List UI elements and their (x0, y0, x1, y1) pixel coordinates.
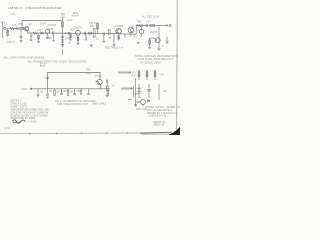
capacitor C12 (74, 89, 76, 93)
transistor TR3 (76, 30, 81, 35)
transistor TR7 (155, 38, 160, 43)
node b (55, 32, 58, 35)
svg-text:47K: 47K (37, 29, 42, 32)
battery B1 (138, 84, 140, 98)
transistor TR1 (24, 27, 28, 31)
ground G1 (6, 34, 9, 36)
svg-text:2N1305: 2N1305 (48, 24, 57, 27)
svg-text:(ALL CAPACITORS IN MF UNLESS): (ALL CAPACITORS IN MF UNLESS) (4, 57, 45, 60)
rail drop wire (21, 21, 23, 29)
wire drop TR5 base (124, 34, 126, 37)
ground G10 (157, 48, 160, 50)
svg-text:ALL TRANSISTORS TYPE 2N1305 UN: ALL TRANSISTORS TYPE 2N1305 UNLESS NOTED (28, 60, 87, 63)
wire TR5 emitter (130, 33, 132, 37)
resistor R10 (97, 23, 99, 34)
ground G3 (37, 41, 40, 43)
node c (96, 32, 99, 35)
resistor R2 (20, 27, 24, 29)
ground G12 (46, 96, 49, 98)
svg-text:4.7K: 4.7K (12, 24, 17, 27)
capacitor C20 on feedback (46, 76, 49, 78)
resistor R9 vertical (93, 29, 95, 38)
wire psu (158, 84, 160, 100)
svg-text:BUS: BUS (40, 65, 45, 68)
resistor R5 to ground (38, 33, 40, 41)
capacitor C7 (140, 24, 142, 27)
capacitor C9 (37, 89, 39, 94)
svg-text:2N170: 2N170 (75, 26, 83, 29)
node e (46, 87, 49, 90)
resistor R13 (150, 24, 155, 26)
ground G11 mid (89, 44, 91, 46)
wire stage connect (135, 26, 137, 35)
capacitor C11 (61, 89, 63, 93)
svg-text:NO SIGNAL INPUT: NO SIGNAL INPUT (140, 62, 162, 65)
svg-text:.01: .01 (40, 91, 44, 94)
capacitor C3 (51, 32, 53, 35)
diode D1 (41, 32, 43, 34)
svg-text:DWG 10452: DWG 10452 (92, 103, 106, 106)
svg-text:2N270: 2N270 (150, 31, 158, 34)
ground G2 (19, 39, 22, 41)
resistor R25 drop (70, 33, 72, 39)
ground G5 (61, 44, 64, 46)
bus wire (30, 88, 110, 90)
resistor R16 (67, 89, 69, 91)
svg-text:.02: .02 (63, 90, 67, 93)
svg-text:OUT: OUT (146, 21, 152, 24)
svg-text:PRI: PRI (90, 25, 94, 28)
capacitor C4b (61, 39, 64, 41)
resistor R3 to ground (7, 29, 9, 34)
signature (13, 120, 26, 123)
svg-text:BENTON: BENTON (154, 124, 164, 127)
svg-text:1K: 1K (56, 91, 59, 94)
svg-text:INPUT: INPUT (8, 41, 16, 44)
capacitor C2 to ground (20, 30, 22, 40)
resistor R12e below TR4 (118, 34, 120, 41)
svg-text:OUT: OUT (133, 36, 139, 39)
svg-text:A-204: A-204 (4, 127, 11, 130)
capacitor C5 (83, 32, 85, 35)
node d (113, 33, 116, 36)
resistor R18 (106, 86, 108, 91)
wire drop (113, 34, 115, 44)
svg-text:ALL RES 1/2 W: ALL RES 1/2 W (142, 15, 160, 18)
+supply rail (22, 20, 63, 22)
page right edge (176, 0, 179, 130)
transistor TR6 (139, 29, 143, 33)
capacitor C14 (148, 84, 150, 98)
resistor R22 (107, 89, 109, 91)
input jack J1 (4, 27, 6, 29)
resistor R15 (54, 89, 56, 91)
svg-text:AND TONE CONTROL CKT: AND TONE CONTROL CKT (57, 103, 88, 106)
resistor R14 (149, 38, 151, 46)
resistor R11 (108, 30, 110, 34)
output arrow (165, 25, 168, 27)
capacitor C13 (106, 80, 108, 84)
transistor TR4 (116, 29, 121, 34)
svg-text:+12V: +12V (67, 19, 73, 22)
capacitor C4 (61, 35, 64, 37)
resistor R1 (10, 27, 15, 29)
transistor TR8 (97, 79, 102, 84)
ground G9 (148, 46, 151, 48)
wire input row (6, 28, 24, 30)
wire TR9 (135, 79, 137, 105)
resistor R23 (137, 25, 141, 27)
capacitor C8 (145, 24, 147, 27)
capacitor C6 (102, 32, 104, 35)
svg-text:PIN: PIN (132, 74, 136, 77)
resistor R26 drop (103, 36, 105, 41)
svg-text:CHECKED 4-12: CHECKED 4-12 (149, 115, 167, 118)
output row wire (136, 24, 165, 26)
dropper chain R6 (62, 17, 64, 47)
svg-text:1N34: 1N34 (40, 23, 47, 26)
small mark (129, 99, 132, 101)
capacitor C18 drop (30, 33, 32, 39)
ground G8 (112, 44, 115, 46)
ground G4 (46, 36, 49, 38)
ground G7 (90, 44, 93, 46)
node a (14, 27, 17, 30)
feedback loop wire (48, 72, 101, 88)
svg-text:SP: SP (135, 93, 139, 96)
svg-text:LAB NO 17 - 6 TRANSISTOR AMPLI: LAB NO 17 - 6 TRANSISTOR AMPLIFIER (8, 6, 62, 10)
wire to output stages (98, 32, 136, 35)
resistor R24 drop (53, 35, 55, 40)
page bottom edge (0, 132, 145, 135)
svg-text:100K: 100K (18, 23, 24, 26)
svg-text:2K: 2K (30, 35, 33, 38)
node f (99, 87, 102, 90)
psu resistor R19 (138, 69, 140, 80)
bus left arrow (30, 88, 32, 90)
transistor TR5 (128, 28, 133, 33)
diode D2 (69, 32, 71, 34)
capacitor C10 (47, 89, 49, 94)
vertical wire (158, 28, 160, 48)
svg-text:1K: 1K (68, 42, 71, 45)
input terminal wire (2, 22, 4, 38)
svg-text:+9V: +9V (160, 74, 165, 77)
svg-text:SEE TABLE II-A: SEE TABLE II-A (105, 46, 123, 49)
svg-text:1K: 1K (96, 37, 99, 40)
svg-text:12V: 12V (163, 90, 168, 93)
ground G6 (76, 42, 79, 44)
scan dark corner (168, 127, 180, 135)
transistor TR2 (45, 30, 49, 34)
ground G13 (106, 94, 109, 96)
svg-text:Alow 4: Alow 4 (72, 15, 80, 18)
svg-text:2K: 2K (70, 91, 73, 94)
stage wire (27, 31, 29, 33)
psu resistor R21 (154, 69, 156, 80)
resistor R8 (89, 32, 92, 34)
svg-text:2N107: 2N107 (95, 75, 103, 78)
capacitor C1 (16, 27, 18, 30)
capacitor C17 (135, 104, 137, 107)
edge dust ticks (29, 133, 30, 134)
connector arrow 1 (118, 72, 131, 74)
svg-text:TR5: TR5 (137, 21, 142, 24)
svg-text:GND: GND (22, 88, 28, 91)
svg-text:10MF: 10MF (48, 28, 55, 31)
bracket (133, 87, 135, 97)
transistor TR9 (141, 100, 146, 105)
svg-text:OSC: OSC (86, 72, 92, 75)
svg-text:4-12-58: 4-12-58 (28, 121, 37, 124)
svg-text:2N1304: 2N1304 (115, 25, 124, 28)
wire stub (62, 49, 64, 55)
psu resistor R20 (146, 69, 148, 80)
svg-text:(+4): (+4) (10, 13, 15, 16)
capacitor C19 drop (85, 33, 87, 38)
resistor R4 (33, 32, 38, 34)
resistor R17 (80, 89, 82, 91)
ground G14 (137, 41, 140, 43)
capacitor C15 (88, 89, 90, 93)
output terminal (169, 24, 171, 26)
capacitor C16 (166, 37, 168, 41)
svg-text:.05: .05 (76, 90, 80, 93)
diode D3 (147, 100, 149, 102)
connector arrow 2 (121, 88, 132, 90)
